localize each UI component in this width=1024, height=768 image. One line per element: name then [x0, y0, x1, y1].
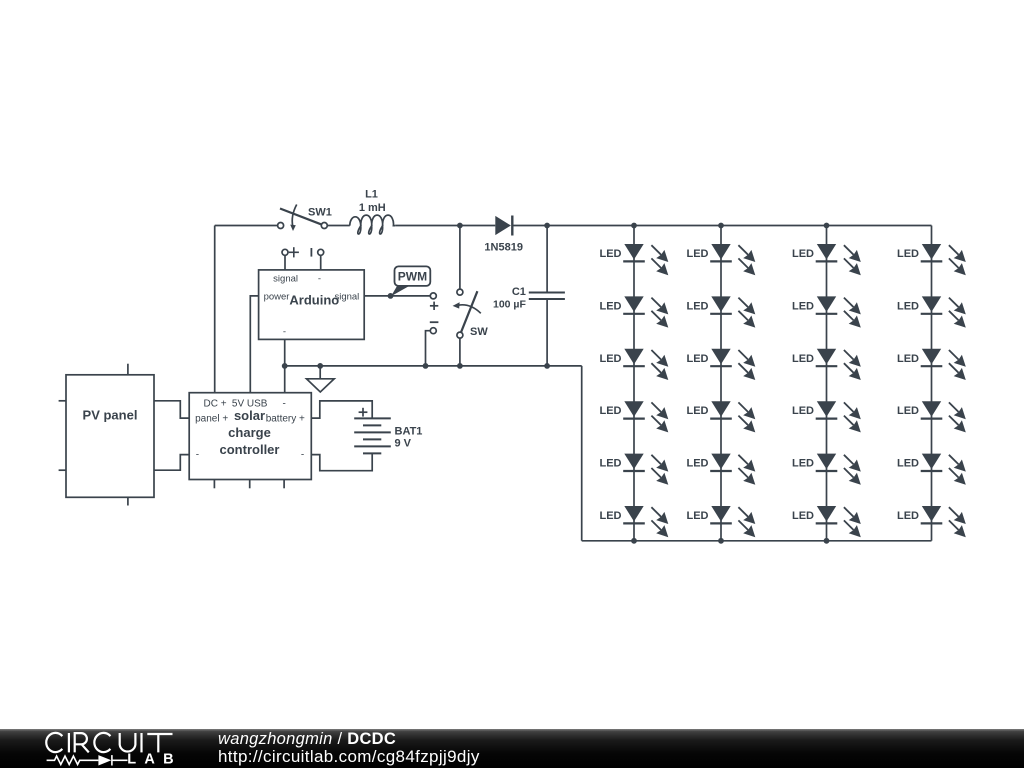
LED D22 (column 4, row 4)	[897, 401, 966, 432]
terminal + (PWM node)	[430, 293, 438, 310]
svg-text:power: power	[264, 291, 290, 302]
wire C1 bottom lead	[546, 299, 548, 366]
wire LED bottom bus	[582, 540, 932, 542]
svg-text:C1: C1	[512, 286, 526, 298]
wire LED string column 3	[826, 226, 828, 541]
wire top bus left segment	[215, 225, 278, 227]
wire PV- to controller panel-	[154, 455, 189, 471]
wire LED string column 2	[720, 226, 722, 541]
switch SW1	[278, 205, 332, 232]
wire BAT1 minus to controller battery-	[311, 453, 372, 470]
svg-text:controller: controller	[220, 442, 280, 457]
wire controller battery+ to BAT1	[311, 401, 372, 419]
LED D13 (column 3, row 1)	[792, 244, 861, 275]
svg-text:-: -	[196, 450, 199, 461]
junction Arduino/controller minus on ground bus	[282, 363, 288, 369]
LED D17 (column 3, row 5)	[792, 454, 861, 485]
wire ground bus	[285, 365, 582, 367]
wire C1 top lead	[546, 226, 548, 293]
svg-text:1 mH: 1 mH	[359, 202, 386, 214]
LED D3 (column 1, row 3)	[600, 349, 669, 380]
svg-text:100 µF: 100 µF	[493, 299, 526, 311]
wire Arduino minus pin to controller minus pin	[284, 339, 286, 392]
svg-text:PV panel: PV panel	[83, 407, 138, 422]
LED D1 (column 1, row 1)	[600, 244, 669, 275]
wire PV+ to controller panel+	[154, 401, 189, 418]
IC U1 Arduino	[259, 247, 365, 339]
svg-text:SW1: SW1	[308, 207, 332, 219]
junction minus terminal drop	[423, 363, 429, 369]
LED D7 (column 2, row 1)	[687, 244, 756, 275]
svg-text:signal: signal	[334, 291, 359, 302]
wire Arduino top pin stub 1	[284, 256, 286, 270]
svg-text:L1: L1	[365, 189, 378, 201]
wire Arduino power pin to controller 5V USB pin	[250, 296, 258, 393]
junction C1 top	[544, 223, 550, 229]
svg-text:PWM: PWM	[398, 270, 427, 284]
LED D10 (column 2, row 4)	[687, 401, 756, 432]
terminal - (ground node)	[430, 322, 439, 334]
LED D14 (column 3, row 2)	[792, 296, 861, 327]
LED D21 (column 4, row 3)	[897, 349, 966, 380]
ground	[307, 379, 335, 392]
wire riser to controller DC+ pin	[214, 226, 216, 393]
LED D11 (column 2, row 5)	[687, 454, 756, 485]
CircuitLab logo resistor-diode glyph	[47, 755, 128, 765]
credit text	[218, 731, 480, 765]
LED D8 (column 2, row 2)	[687, 296, 756, 327]
svg-text:solar: solar	[234, 408, 265, 423]
wire Arduino top pin stub 2	[320, 256, 322, 270]
LED D24 (column 4, row 6)	[897, 506, 966, 537]
svg-text:Arduino: Arduino	[289, 293, 339, 308]
LED D19 (column 4, row 1)	[897, 244, 966, 275]
LED D18 (column 3, row 6)	[792, 506, 861, 537]
svg-text:DC +: DC +	[203, 399, 226, 410]
LED D6 (column 1, row 6)	[600, 506, 669, 537]
wire return drop to LED bottom bus	[581, 366, 583, 541]
wire PV panel left stub 1	[59, 400, 66, 402]
wire SW top lead	[459, 226, 461, 290]
svg-text:-: -	[283, 327, 286, 338]
svg-text:1N5819: 1N5819	[484, 242, 523, 254]
wire L1 to diode	[395, 225, 495, 227]
svg-text:charge: charge	[228, 425, 271, 440]
wire LED string column 4	[931, 226, 933, 541]
CircuitLab logo wordmark CIRCUIT	[46, 733, 172, 753]
wire ground stub	[319, 366, 321, 379]
wire PV panel left stub 2	[59, 469, 66, 471]
LED D5 (column 1, row 5)	[600, 454, 669, 485]
svg-text:LAB: LAB	[127, 752, 182, 768]
footer bar	[0, 729, 1024, 768]
junction LED column 1 bottom	[631, 538, 637, 544]
junction SW bottom	[457, 363, 463, 369]
LED D9 (column 2, row 3)	[687, 349, 756, 380]
svg-text:-: -	[318, 274, 321, 285]
LED D15 (column 3, row 3)	[792, 349, 861, 380]
LED D23 (column 4, row 5)	[897, 454, 966, 485]
wire SW bottom lead	[459, 338, 461, 366]
svg-text:signal: signal	[273, 274, 298, 285]
svg-text:-: -	[283, 399, 286, 410]
svg-text:panel +: panel +	[195, 413, 228, 424]
junction ground symbol tap	[317, 363, 323, 369]
junction PWM tap	[388, 293, 394, 299]
LED D2 (column 1, row 2)	[600, 296, 669, 327]
LED D4 (column 1, row 4)	[600, 401, 669, 432]
wire controller bottom stub 2	[249, 480, 251, 489]
junction LED column 1 top	[631, 223, 637, 229]
LED D20 (column 4, row 2)	[897, 296, 966, 327]
junction LED column 3 top	[824, 223, 830, 229]
wire top bus diode to LED array	[512, 225, 931, 227]
battery BAT1	[354, 408, 422, 454]
svg-text:9 V: 9 V	[395, 437, 412, 449]
svg-text:-: -	[301, 450, 304, 461]
wire controller bottom stub 1	[213, 480, 215, 489]
capacitor C1	[493, 286, 565, 311]
junction LED column 2 top	[718, 223, 724, 229]
wire minus terminal stub	[426, 331, 431, 366]
PV panel	[66, 375, 154, 498]
junction C1 bottom	[544, 363, 550, 369]
flag PWM	[391, 266, 430, 296]
junction LED column 2 bottom	[718, 538, 724, 544]
wire PV panel bottom stub	[127, 497, 129, 505]
wire controller bottom stub 3	[283, 480, 285, 489]
wire Arduino signal out to + terminal	[364, 295, 430, 297]
junction SW branch on top bus	[457, 223, 463, 229]
LED D16 (column 3, row 4)	[792, 401, 861, 432]
svg-text:battery +: battery +	[266, 413, 305, 424]
diode D25 1N5819	[484, 216, 523, 254]
wire PV panel top stub	[127, 364, 129, 375]
inductor L1	[350, 189, 395, 235]
svg-text:SW: SW	[470, 326, 488, 338]
IC U2 solar charge controller	[189, 393, 311, 480]
junction LED column 3 bottom	[824, 538, 830, 544]
wire SW1 to L1	[327, 225, 350, 227]
svg-text:BAT1: BAT1	[395, 425, 423, 437]
LED D12 (column 2, row 6)	[687, 506, 756, 537]
switch SW	[453, 289, 489, 338]
wire LED string column 1	[633, 226, 635, 541]
